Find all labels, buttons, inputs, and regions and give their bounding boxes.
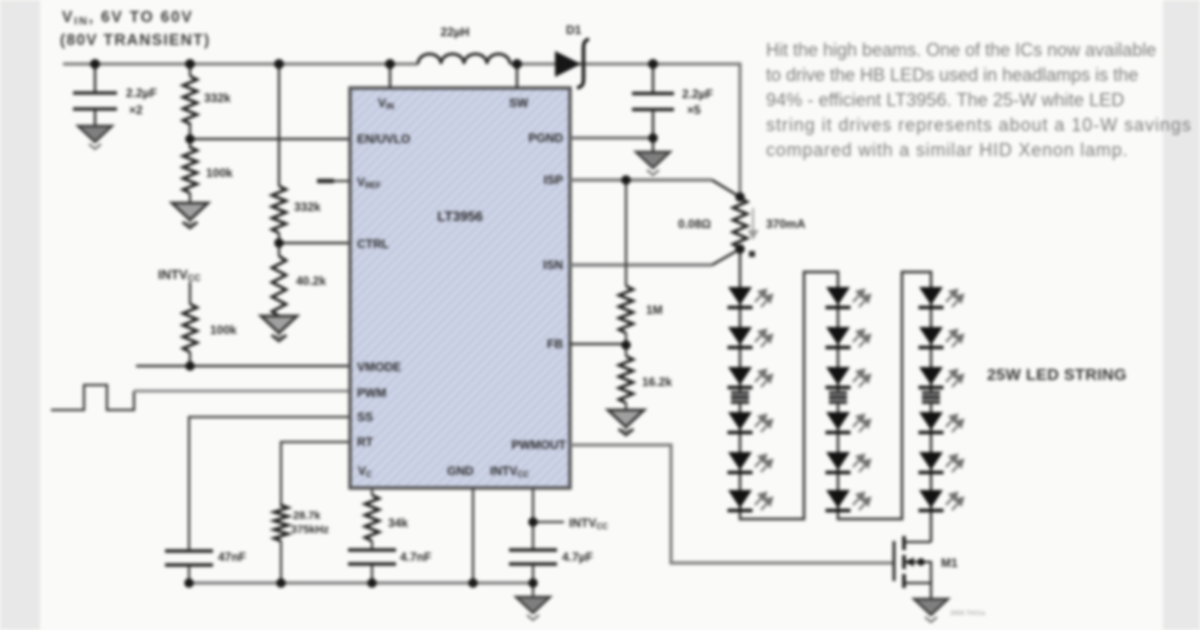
svg-text:M1: M1	[941, 556, 958, 570]
svg-text:GND: GND	[447, 464, 474, 478]
LED string 2	[826, 287, 871, 511]
ground	[78, 126, 112, 149]
wire SS to cap	[189, 417, 350, 550]
wire PGND	[570, 136, 653, 139]
LED string 1	[728, 287, 773, 511]
ground	[172, 203, 208, 228]
resistor R8 0.08ohm sense	[733, 198, 747, 248]
svg-text:EN/UVLO: EN/UVLO	[357, 132, 410, 146]
svg-text:compared with a similar HID Xe: compared with a similar HID Xenon lamp.	[766, 140, 1128, 160]
svg-text:25W LED STRING: 25W LED STRING	[987, 367, 1127, 384]
article text block	[766, 40, 1192, 160]
svg-text:1M: 1M	[646, 303, 663, 317]
wire FB divider chain	[625, 180, 627, 286]
svg-text:SS: SS	[357, 410, 373, 424]
wire SW pin	[516, 64, 518, 88]
ground	[636, 152, 670, 175]
svg-text:(80V TRANSIENT): (80V TRANSIENT)	[60, 32, 210, 49]
svg-text:2.2µF: 2.2µF	[126, 86, 157, 100]
svg-text:47nF: 47nF	[218, 550, 246, 564]
svg-text:28.7k: 28.7k	[293, 510, 321, 522]
ground	[261, 316, 297, 341]
svg-text:string it drives represents ab: string it drives represents about a 10-W…	[766, 115, 1192, 135]
svg-text:40.2k: 40.2k	[296, 274, 326, 288]
resistor R3 332k	[278, 64, 280, 186]
wire CTRL	[279, 242, 350, 245]
svg-text:RT: RT	[357, 435, 374, 449]
svg-text:×2: ×2	[129, 103, 143, 117]
capacitor C4 4.7nF	[348, 548, 396, 551]
wire RT	[281, 442, 350, 507]
capacitor C2 2.2uF x5 output	[652, 64, 654, 92]
LED string 3	[919, 287, 964, 511]
svg-text:100k: 100k	[206, 166, 233, 180]
diode D1 schottky	[555, 51, 581, 77]
svg-text:4.7nF: 4.7nF	[400, 550, 431, 564]
wire ISN	[570, 263, 712, 267]
capacitor C3 47nF	[165, 549, 213, 552]
svg-text:PWM: PWM	[357, 386, 386, 400]
svg-text:94% - efficient LT3956. The 25: 94% - efficient LT3956. The 25-W white L…	[766, 90, 1124, 110]
ground	[914, 599, 948, 622]
svg-text:LT3956: LT3956	[437, 209, 483, 224]
wire top VIN rail	[63, 64, 740, 197]
svg-text:PGND: PGND	[528, 131, 563, 145]
wire VIN pin	[389, 64, 391, 88]
IC U1 LT3956	[350, 88, 570, 488]
svg-text:VMODE: VMODE	[357, 360, 401, 374]
wire ISP	[570, 178, 712, 182]
svg-text:Hit the high beams. One of the: Hit the high beams. One of the ICs now a…	[766, 40, 1156, 60]
resistor R5 100k	[189, 282, 191, 304]
transistor M1 NMOS	[893, 541, 896, 581]
svg-text:34k: 34k	[388, 516, 408, 530]
resistor R4 40.2k	[278, 243, 280, 256]
wire VREF stub	[317, 180, 350, 182]
svg-text:22µH: 22µH	[441, 25, 470, 39]
wire LED string interconnects	[740, 249, 931, 542]
wire PWM	[134, 390, 350, 393]
svg-text:375kHz: 375kHz	[291, 524, 329, 536]
svg-text:370mA: 370mA	[766, 217, 806, 231]
svg-text:ISN: ISN	[543, 258, 563, 272]
svg-text:SW: SW	[509, 96, 529, 110]
svg-text:332k: 332k	[204, 91, 231, 105]
wire PWMOUT to gate	[570, 445, 893, 563]
PWM pulse input	[51, 385, 134, 410]
capacitor C5 4.7uF	[509, 548, 557, 551]
ground	[532, 583, 534, 597]
svg-text:×5: ×5	[687, 103, 701, 117]
svg-text:16.2k: 16.2k	[642, 375, 672, 389]
ground	[608, 410, 644, 435]
svg-text:0.08Ω: 0.08Ω	[678, 217, 711, 231]
wire VMODE	[136, 365, 350, 368]
svg-text:100k: 100k	[210, 323, 237, 337]
svg-text:D1: D1	[566, 23, 582, 37]
capacitor C1 2.2uF x2 input	[73, 64, 117, 126]
svg-text:2.2µF: 2.2µF	[682, 87, 713, 101]
svg-text:to drive the HB LEDs used in h: to drive the HB LEDs used in headlamps i…	[766, 65, 1138, 85]
resistor R10 34k on VC	[371, 488, 373, 495]
svg-text:4.7µF: 4.7µF	[562, 550, 593, 564]
wire FB	[570, 343, 626, 346]
resistor R7 16.2k	[619, 356, 633, 403]
svg-text:332k: 332k	[294, 200, 321, 214]
resistor R6 1M	[619, 286, 633, 333]
inductor L1 22uH	[418, 54, 510, 64]
svg-text:PWMOUT: PWMOUT	[511, 438, 566, 452]
svg-text:CTRL: CTRL	[357, 237, 389, 251]
wire GND pin	[472, 488, 474, 583]
wire bottom ground rail	[189, 581, 533, 584]
resistor R1 332k	[189, 64, 191, 76]
resistor R2 100k	[189, 139, 191, 149]
wire EN/UVLO	[190, 138, 350, 141]
resistor R9 28.7k 375kHz	[274, 505, 288, 541]
svg-text:ISP: ISP	[544, 173, 563, 187]
svg-text:3956 TA01a: 3956 TA01a	[950, 610, 985, 617]
svg-text:FB: FB	[547, 337, 563, 351]
wire INTVCC pin	[532, 488, 534, 550]
